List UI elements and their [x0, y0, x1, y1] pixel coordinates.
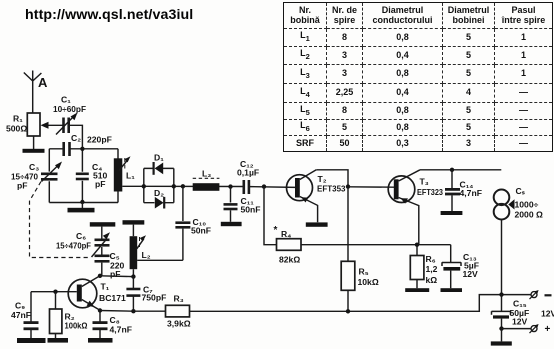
resistor R5 10k [341, 261, 379, 311]
svg-text:pF: pF [17, 181, 28, 191]
svg-text:C₅: C₅ [110, 251, 120, 261]
svg-text:4,7nF: 4,7nF [460, 188, 482, 198]
svg-text:220pF: 220pF [87, 135, 112, 145]
ground T2 emitter [306, 222, 328, 226]
svg-text:C₉: C₉ [15, 301, 25, 311]
svg-text:R₆: R₆ [426, 254, 436, 264]
wire phones down to minus node [501, 220, 503, 295]
resistor R3 3.9k [166, 294, 191, 329]
capacitor C11 50nF [224, 187, 261, 222]
svg-text:EFT353: EFT353 [317, 184, 346, 194]
diode loop wires [144, 168, 174, 202]
terminal minus [530, 290, 552, 299]
ground under C15 [491, 329, 512, 346]
capacitor C4 510pF [76, 162, 108, 189]
tank loop wires (C3/C4/L1) [49, 149, 118, 203]
headphones Cs 1000-2000 ohm [494, 186, 543, 220]
bottom rail wires [100, 295, 531, 312]
svg-text:R₅: R₅ [359, 267, 369, 277]
ground under R2 [48, 338, 69, 343]
svg-text:A: A [38, 75, 48, 90]
node R6/C13/T3 emitter [415, 243, 419, 247]
capacitor C7 750pF [126, 277, 166, 312]
capacitor C1 (10-60pF variable) [53, 95, 86, 135]
coil winding table [283, 2, 553, 152]
node T2 collector / T3 base [346, 184, 350, 188]
svg-text:T₂: T₂ [318, 174, 327, 184]
resistor R4 82k [264, 187, 301, 265]
wire rail to T3 base [348, 186, 394, 188]
resistor R1 potentiometer [6, 113, 64, 149]
wire L2 tap to C10 [137, 259, 183, 261]
svg-text:T₃: T₃ [420, 177, 429, 187]
diode D1 [154, 153, 165, 175]
wire C1 to tank corner [69, 125, 83, 149]
capacitor C12 0.1uF [237, 159, 259, 194]
svg-text:L₁: L₁ [126, 171, 135, 181]
svg-text:D₁: D₁ [154, 153, 164, 163]
svg-text:pF: pF [110, 269, 121, 279]
ground under R6 [405, 288, 429, 292]
capacitor C8 4.7nF [93, 311, 132, 339]
svg-text:R₄: R₄ [281, 229, 291, 239]
svg-text:10kΩ: 10kΩ [358, 277, 379, 287]
svg-text:2000 Ω: 2000 Ω [515, 210, 544, 220]
svg-text:C₆: C₆ [76, 231, 86, 241]
dashed gang line C3-C6 [30, 182, 92, 258]
wire L1 tap to diodes [122, 185, 144, 187]
svg-text:C₃: C₃ [29, 162, 39, 172]
diode D2 [154, 188, 164, 209]
transistor T3 EFT323 [388, 170, 443, 245]
svg-text:12V: 12V [463, 269, 479, 279]
node C14 top [450, 168, 454, 172]
main signal wire diodes to T2 [144, 186, 295, 187]
capacitor C15 50uF electrolytic [492, 295, 554, 329]
svg-text:50nF: 50nF [191, 226, 211, 236]
svg-text:R₁: R₁ [13, 114, 23, 124]
inductor L2 [130, 225, 151, 277]
wire R4 to R6 node [301, 244, 451, 246]
terminal plus [530, 324, 551, 335]
svg-text:D₂: D₂ [154, 188, 164, 198]
capacitor C2 220pF [64, 133, 112, 156]
svg-text:L₃: L₃ [202, 169, 211, 179]
svg-text:12V: 12V [512, 317, 528, 327]
resistor R6 1.2k [410, 245, 437, 289]
svg-text:BC171: BC171 [99, 293, 126, 303]
antenna A [24, 71, 48, 114]
inductor L3 [193, 169, 220, 191]
svg-text:100kΩ: 100kΩ [65, 321, 88, 331]
capacitor C13 5uF electrolytic [442, 245, 479, 289]
svg-text:C₁: C₁ [61, 95, 71, 105]
svg-text:500Ω: 500Ω [6, 124, 27, 134]
svg-text:750pF: 750pF [142, 293, 167, 303]
svg-text:50nF: 50nF [241, 204, 261, 214]
node plus junction [499, 326, 503, 330]
transistor T2 EFT353 [287, 170, 346, 223]
wire T2 collector to rail [316, 170, 348, 261]
ground under C9 [17, 338, 46, 343]
svg-text:Cₛ: Cₛ [516, 186, 526, 196]
svg-text:4,7nF: 4,7nF [110, 325, 132, 335]
svg-text:1,2: 1,2 [426, 264, 438, 274]
svg-text:C₈: C₈ [110, 315, 120, 325]
svg-text:+: + [545, 324, 551, 335]
transistor T1 BC171 [68, 276, 126, 311]
node R2 top [53, 290, 57, 294]
svg-text:R₃: R₃ [174, 294, 184, 304]
capacitor C9 47nF [11, 292, 39, 338]
svg-text:12V: 12V [541, 309, 554, 319]
capacitor C6 (15-470pF variable) [56, 227, 110, 257]
wire T3 collector to phones [420, 169, 501, 171]
capacitor C5 220pF [95, 251, 125, 279]
capacitor C3 (15-470pF variable) [11, 162, 62, 191]
svg-text:L₂: L₂ [142, 250, 151, 260]
svg-text:EFT323: EFT323 [417, 187, 443, 197]
junction dots on main wire [142, 184, 267, 189]
svg-text:0,1µF: 0,1µF [237, 168, 259, 178]
svg-text:3,9kΩ: 3,9kΩ [167, 319, 191, 329]
wire collector node to L2/C7 node [100, 275, 133, 278]
svg-text:pF: pF [95, 179, 106, 189]
svg-text:10÷60pF: 10÷60pF [53, 104, 86, 114]
svg-text:C₂: C₂ [71, 133, 81, 143]
T1 base wire [31, 291, 77, 293]
ground under tank [68, 203, 95, 213]
svg-text:C₁₅: C₁₅ [513, 299, 527, 309]
ground under C14 [441, 211, 463, 215]
ground under C11 [221, 222, 242, 226]
node T1 emitter [98, 308, 102, 312]
ground under R1 [23, 149, 45, 153]
svg-text:1000÷: 1000÷ [515, 200, 539, 210]
capacitor C14 4.7nF [445, 170, 482, 211]
node minus junction [499, 292, 503, 296]
url header text [25, 7, 193, 23]
wire plus [502, 328, 532, 330]
inductor L1 [114, 156, 135, 191]
node: junction dots tank [80, 147, 84, 205]
capacitor C10 50nF [175, 186, 211, 260]
node C7 bottom on rail [131, 309, 135, 313]
svg-text:15÷470pF: 15÷470pF [56, 241, 91, 251]
svg-text:47nF: 47nF [11, 310, 31, 320]
svg-text:T₁: T₁ [101, 282, 110, 292]
svg-text:*: * [274, 225, 278, 236]
svg-text:kΩ: kΩ [426, 275, 438, 285]
node R5 bottom on rail [346, 309, 350, 313]
node T1 collector / C5 [98, 274, 102, 278]
ground under C13 [441, 288, 463, 292]
resistor R2 100k [50, 292, 88, 338]
svg-text:82kΩ: 82kΩ [279, 255, 300, 265]
ground bar above C6 [90, 222, 116, 226]
node L2 bottom / C7 top [131, 274, 135, 278]
ground under C8 [88, 338, 113, 343]
ground bar above L2 [123, 220, 145, 224]
